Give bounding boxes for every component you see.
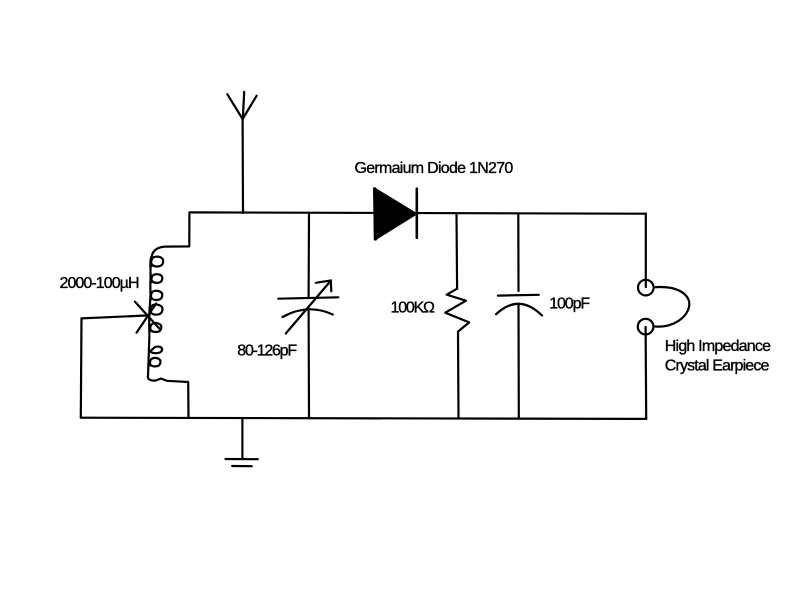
svg-text:100KΩ: 100KΩ — [391, 300, 436, 317]
svg-text:2000-100µH: 2000-100µH — [60, 275, 140, 292]
svg-text:Germaium Diode 1N270: Germaium Diode 1N270 — [355, 160, 514, 177]
svg-text:100pF: 100pF — [549, 295, 590, 312]
svg-text:80-126pF: 80-126pF — [237, 343, 297, 360]
svg-text:High Impedance: High Impedance — [665, 338, 771, 355]
svg-text:Crystal Earpiece: Crystal Earpiece — [665, 358, 770, 375]
